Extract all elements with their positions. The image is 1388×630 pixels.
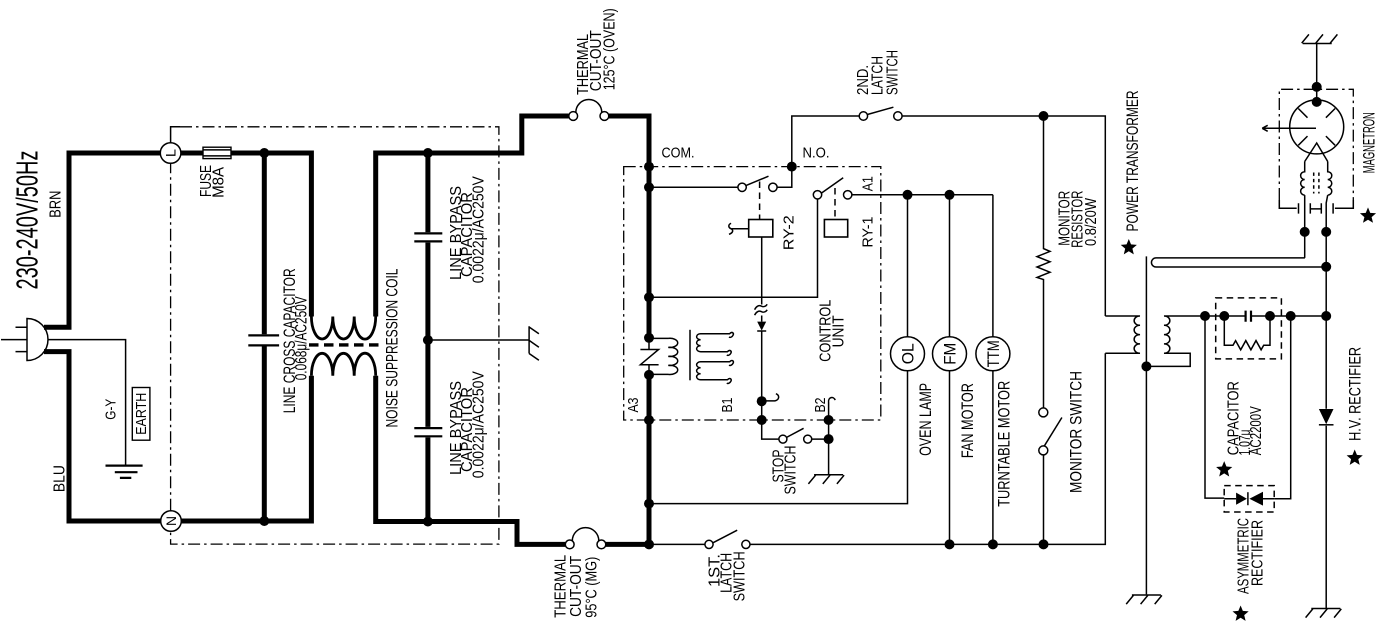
relay coil RY-1 <box>824 220 847 238</box>
svg-text:FAN MOTOR: FAN MOTOR <box>958 383 977 458</box>
HV capacitor plates <box>1246 311 1251 322</box>
relay coil RY-2 <box>729 220 773 238</box>
label THERMAL CUT-OUT 95C (MG) <box>553 555 601 618</box>
label H.V. RECTIFIER with star <box>1346 347 1365 465</box>
wire BRN line: plug to L terminal <box>44 153 160 327</box>
noise suppression coil L1 upper winding <box>311 317 375 340</box>
magnetron dash-dot enclosure <box>1279 89 1353 200</box>
svg-text:G-Y: G-Y <box>103 399 120 420</box>
svg-text:0.0022μ/AC250V: 0.0022μ/AC250V <box>471 176 488 284</box>
HV rectifier branch <box>1325 316 1327 609</box>
svg-text:RY-2: RY-2 <box>782 215 798 250</box>
junction filament lead right <box>1321 227 1331 237</box>
svg-text:B1: B1 <box>720 398 736 413</box>
junction monitor branch top <box>1039 111 1049 121</box>
junction FM top <box>945 190 955 200</box>
svg-text:CUT-OUT: CUT-OUT <box>568 556 585 617</box>
svg-text:RY-1: RY-1 <box>861 217 877 248</box>
asymmetric rectifier diodes <box>1224 492 1274 506</box>
wire stub to chassis <box>428 339 529 341</box>
junction FM bottom <box>945 539 955 549</box>
wire ground to magnetron anode <box>1316 44 1318 101</box>
wire left branch down to asymmetric rectifier <box>1205 316 1224 498</box>
label 2ND. LATCH SWITCH <box>855 50 901 95</box>
svg-text:SWITCH: SWITCH <box>783 446 800 495</box>
svg-text:230-240V/50Hz: 230-240V/50Hz <box>10 151 45 290</box>
label CAPACITOR 1.07u AC2200V with star <box>1216 381 1265 476</box>
wire fuse to coil, top rail <box>231 153 311 317</box>
oven lamp OL <box>649 195 925 504</box>
label STOP SWITCH <box>771 446 800 495</box>
svg-text:SWITCH: SWITCH <box>732 551 749 601</box>
svg-text:B2: B2 <box>813 398 829 413</box>
wire 2nd latch feed up from N.O. <box>792 116 859 167</box>
svg-text:NOISE SUPPRESSION COIL: NOISE SUPPRESSION COIL <box>383 269 402 428</box>
wire L to fuse <box>181 151 203 156</box>
svg-text:BRN: BRN <box>48 191 65 218</box>
thermal cut-out 95C (MG) <box>565 528 606 549</box>
junction at chassis stub <box>423 335 433 345</box>
svg-text:95°C (MG): 95°C (MG) <box>584 557 601 618</box>
power transformer core line <box>1145 256 1147 594</box>
wire stop switch to B2 node and ground <box>812 420 829 475</box>
svg-text:EARTH: EARTH <box>133 393 150 435</box>
svg-text:N: N <box>163 516 179 526</box>
junction at magnetron box <box>1312 82 1322 92</box>
svg-text:THERMAL: THERMAL <box>553 555 570 618</box>
thermal cut-out 125C (oven) <box>569 100 609 121</box>
chassis ground (rotated) <box>529 326 539 360</box>
label POWER TRANSFORMER with star <box>1121 91 1142 255</box>
svg-text:OVEN LAMP: OVEN LAMP <box>916 383 935 456</box>
relay contact RY-1 <box>813 178 852 220</box>
chassis ground below HV rectifier <box>1306 609 1342 618</box>
filament winding hairpin to magnetron <box>1151 258 1326 267</box>
junction primary top <box>644 333 654 343</box>
svg-text:BLU: BLU <box>52 465 69 492</box>
control transformer secondary winding 2 <box>697 361 734 384</box>
junction A3 <box>644 415 654 425</box>
asymmetric rectifier dashed enclosure <box>1224 486 1274 512</box>
bottom rail to 1st latch switch <box>649 543 705 545</box>
fan motor FM <box>933 195 967 545</box>
earth ground symbol <box>106 466 143 478</box>
junction magnetron filament/HV <box>1321 311 1331 321</box>
junction bypass at bottom rail <box>423 517 433 527</box>
svg-text:FM: FM <box>942 343 960 365</box>
fuse M8A <box>203 147 231 158</box>
svg-text:125°C (OVEN): 125°C (OVEN) <box>602 8 619 90</box>
wire RY-2 contact to N.O. node <box>777 167 792 188</box>
magnetron cathode V <box>1305 143 1328 162</box>
junction COM on main vertical <box>644 162 654 172</box>
wire coil upper-right to top rail toward thermal cutout <box>376 116 569 317</box>
label FUSE M8A <box>198 165 227 198</box>
junction N.O. <box>787 162 797 172</box>
wire earth lead G-Y <box>48 340 126 466</box>
svg-text:UNIT: UNIT <box>830 315 847 347</box>
junction at magnetron anode <box>1312 97 1322 107</box>
turntable motor TTM <box>976 195 1010 545</box>
junction primary bottom <box>644 370 654 380</box>
magnetron antenna arrow <box>1262 125 1316 131</box>
label ASYMMETRIC RECTIFIER with star <box>1233 518 1267 621</box>
capacitor C2 plates <box>414 233 442 241</box>
line bypass capacitor C2 branch upper <box>425 153 430 340</box>
wire RY-1 left terminal to main vertical <box>649 199 818 297</box>
svg-text:AC2200V: AC2200V <box>1248 406 1265 455</box>
power transformer T1 primary <box>1105 316 1140 353</box>
control transformer primary winding <box>649 338 678 374</box>
junction relay feed <box>644 182 654 192</box>
relay contact RY-2 <box>738 176 777 219</box>
wire cutout to main thick vertical <box>609 116 649 544</box>
svg-text:POWER TRANSFORMER: POWER TRANSFORMER <box>1123 91 1142 232</box>
label THERMAL CUT-OUT 125C (OVEN) <box>575 8 619 95</box>
svg-text:L: L <box>162 149 178 157</box>
junction HV capacitor left <box>1219 311 1229 321</box>
svg-text:0.068μ/AC250V: 0.068μ/AC250V <box>292 296 311 380</box>
wire asym rectifier to HV line right <box>1274 316 1291 499</box>
line bypass capacitor C3 branch lower <box>425 340 430 522</box>
svg-text:TURNTABLE MOTOR: TURNTABLE MOTOR <box>995 381 1014 507</box>
junction B2 <box>824 415 834 425</box>
svg-text:COM.: COM. <box>662 146 695 162</box>
svg-text:OL: OL <box>900 343 918 364</box>
junction at N rail / C1 <box>259 516 269 526</box>
svg-text:N.O.: N.O. <box>803 146 830 162</box>
capacitor C1 plates <box>248 335 279 345</box>
junction TTM bottom <box>988 539 998 549</box>
control transformer core <box>689 330 691 381</box>
junction at fuse output <box>259 148 269 158</box>
svg-text:A1: A1 <box>861 176 877 191</box>
junction bottom of main vertical <box>644 539 654 549</box>
junction HV secondary top <box>1200 311 1210 321</box>
label 1ST. LATCH SWITCH <box>707 551 749 601</box>
AC plug <box>1 319 48 361</box>
label LINE BYPASS CAPACITOR 0.0022u/AC250V lower <box>448 371 488 479</box>
magnetron filament coils <box>1301 162 1332 196</box>
svg-text:0.0022μ/AC250V: 0.0022μ/AC250V <box>471 371 488 479</box>
chassis ground below stop switch <box>808 475 844 484</box>
junction below B2 <box>824 434 834 444</box>
label CONTROL UNIT <box>818 300 848 362</box>
diode D1 (control unit) <box>757 322 766 331</box>
HV line from secondary to magnetron <box>1205 315 1326 317</box>
magnetron feed-through capacitors <box>1279 200 1353 214</box>
wire N to coil lower-left <box>181 376 311 521</box>
label MONITOR RESISTOR 0.8/20W <box>1057 191 1100 248</box>
svg-text:MONITOR SWITCH: MONITOR SWITCH <box>1067 371 1086 493</box>
junction with connector hook at 401 <box>757 394 779 407</box>
svg-text:0.8/20W: 0.8/20W <box>1083 198 1100 246</box>
wire break symbol <box>755 304 768 315</box>
junction at bypass branch top <box>423 148 433 158</box>
magnetron filament leads <box>1305 195 1328 316</box>
chassis ground below transformer <box>1126 595 1162 604</box>
wire 2nd latch to transformer feed <box>902 116 1105 316</box>
svg-text:TTM: TTM <box>985 340 1003 367</box>
control unit dash-dot enclosure <box>624 167 881 420</box>
terminal L <box>160 143 181 164</box>
junction on main vertical at 297 <box>644 292 654 302</box>
power transformer HV secondary <box>1151 316 1205 366</box>
line cross capacitor C1 branch <box>262 153 267 521</box>
svg-text:RECTIFIER: RECTIFIER <box>1249 520 1266 586</box>
label EARTH boxed <box>132 388 150 441</box>
junction asym rectifier top <box>1286 311 1296 321</box>
wire diode to B1 and stop switch <box>762 331 779 439</box>
junction filament lead left <box>1300 227 1310 237</box>
terminal N <box>161 511 182 532</box>
junction filament right to hairpin bottom <box>1321 262 1331 272</box>
svg-text:SWITCH: SWITCH <box>884 50 901 95</box>
junction monitor bottom <box>1039 539 1049 549</box>
svg-text:MAGNETRON: MAGNETRON <box>1360 112 1379 173</box>
control unit transformer Z element <box>640 338 658 375</box>
label LINE BYPASS CAPACITOR 0.0022u/AC250V upper <box>448 176 488 284</box>
B2 connector hook <box>829 397 836 420</box>
bleed resistor loop <box>1224 316 1270 350</box>
wire RY-2 coil bottom <box>761 237 763 322</box>
capacitor C3 plates <box>414 428 442 436</box>
junction B1 <box>757 415 767 425</box>
wire MG cutout to junction <box>606 542 649 547</box>
wire coil lower-right along bottom rail to MG cutout <box>376 376 566 545</box>
svg-text:H.V. RECTIFIER: H.V. RECTIFIER <box>1346 347 1365 441</box>
control transformer secondary winding 1 <box>697 332 734 355</box>
monitor resistor 0.8/20W <box>1037 116 1050 408</box>
bottom rail to transformer <box>750 353 1105 544</box>
wire BLU line: plug to N terminal <box>44 352 161 521</box>
chassis ground above magnetron (inverted) <box>1302 34 1338 43</box>
svg-text:A3: A3 <box>626 398 642 413</box>
junction HV capacitor right <box>1265 311 1275 321</box>
junction OL return on main vertical <box>644 499 654 509</box>
HV rectifier diode <box>1319 409 1334 425</box>
magnetron internal spokes <box>1298 109 1335 146</box>
stop switch <box>779 428 812 443</box>
1st latch switch <box>705 530 750 548</box>
label MAGNETRON with star <box>1360 112 1379 223</box>
noise filter dash-dot enclosure <box>171 127 180 143</box>
wire A1 row to lamp/motor branches <box>852 194 993 196</box>
coil core dashed line <box>309 343 383 346</box>
junction HV secondary to core/chassis <box>1141 361 1151 371</box>
noise suppression coil L1 lower winding <box>311 353 375 376</box>
2nd latch switch <box>859 107 902 120</box>
HV capacitor dashed enclosure <box>1216 298 1282 359</box>
magnetron V1 body <box>1290 100 1344 154</box>
monitor switch <box>1039 408 1062 545</box>
wire to RY-2 contact <box>649 186 738 188</box>
label LINE CROSS CAPACITOR 0.068u/AC250V <box>280 268 311 413</box>
svg-text:M8A: M8A <box>210 167 227 198</box>
junction OL top <box>903 190 913 200</box>
